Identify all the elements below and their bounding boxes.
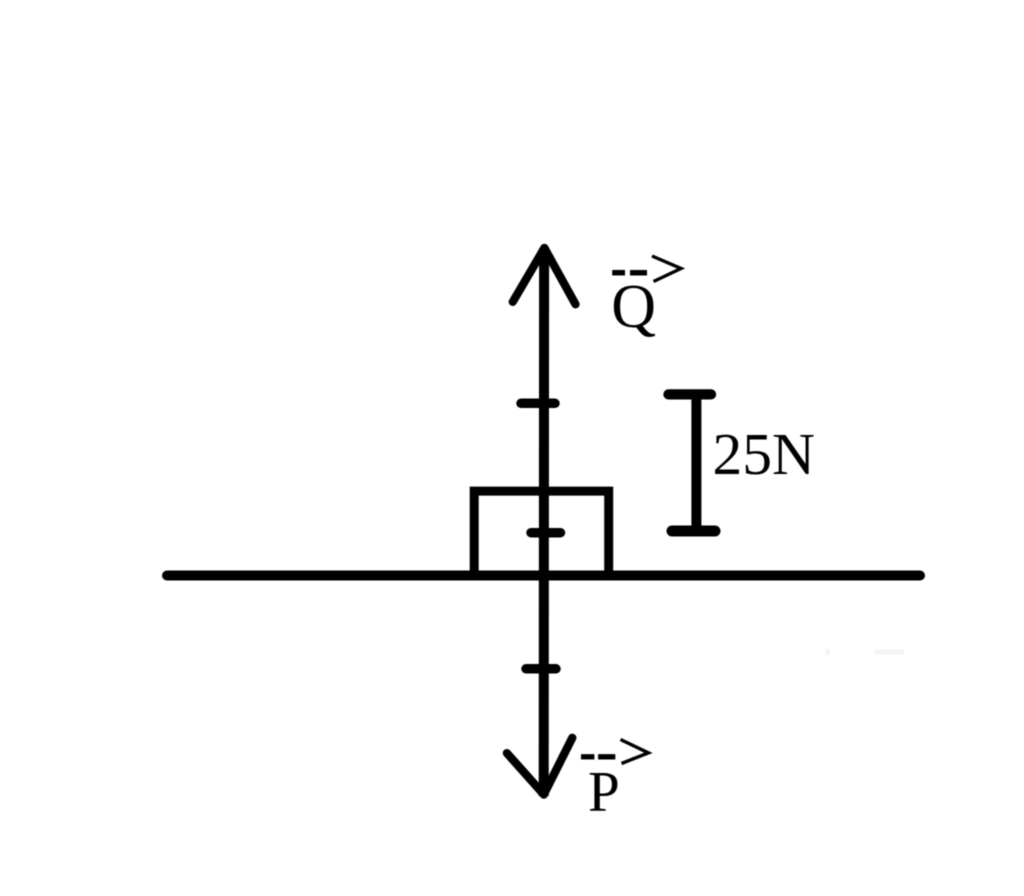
svg-text:Q: Q — [611, 273, 656, 341]
svg-text:P: P — [588, 761, 620, 824]
svg-text:25N: 25N — [713, 421, 815, 487]
